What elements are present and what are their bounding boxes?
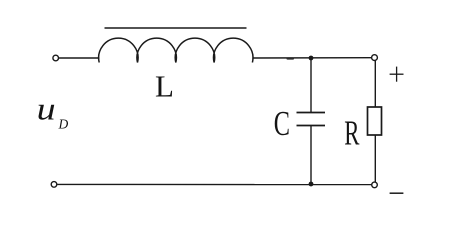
- junction node top: [309, 56, 314, 61]
- svg-text:D: D: [58, 117, 69, 132]
- resistor R body: [368, 107, 382, 135]
- terminal circle input top-left: [53, 55, 59, 61]
- solder blemish on top wire: [288, 57, 294, 59]
- terminal circle output bottom-right: [372, 182, 378, 188]
- terminal circle input bottom-left: [51, 182, 57, 188]
- svg-text:R: R: [344, 115, 359, 153]
- wire terminal down to resistor: [374, 61, 376, 107]
- plus sign output polarity: [390, 73, 404, 75]
- terminal circle output top-right: [372, 55, 378, 61]
- wire junction down to capacitor: [310, 58, 312, 113]
- capacitor C plates: [297, 112, 326, 114]
- bottom rail wire: [57, 183, 371, 185]
- minus sign output polarity: [390, 192, 404, 194]
- svg-text:L: L: [155, 69, 174, 104]
- wire capacitor to bottom rail: [310, 126, 312, 185]
- core bar above inductor: [105, 27, 247, 29]
- inductor L (4 arcs): [99, 38, 253, 62]
- wire from inductor to output terminal: [252, 57, 371, 59]
- wire resistor to bottom terminal: [374, 135, 376, 182]
- svg-text:u: u: [37, 91, 56, 127]
- wire from input terminal to inductor: [59, 57, 99, 59]
- svg-text:C: C: [274, 104, 290, 143]
- junction node bottom: [309, 182, 314, 187]
